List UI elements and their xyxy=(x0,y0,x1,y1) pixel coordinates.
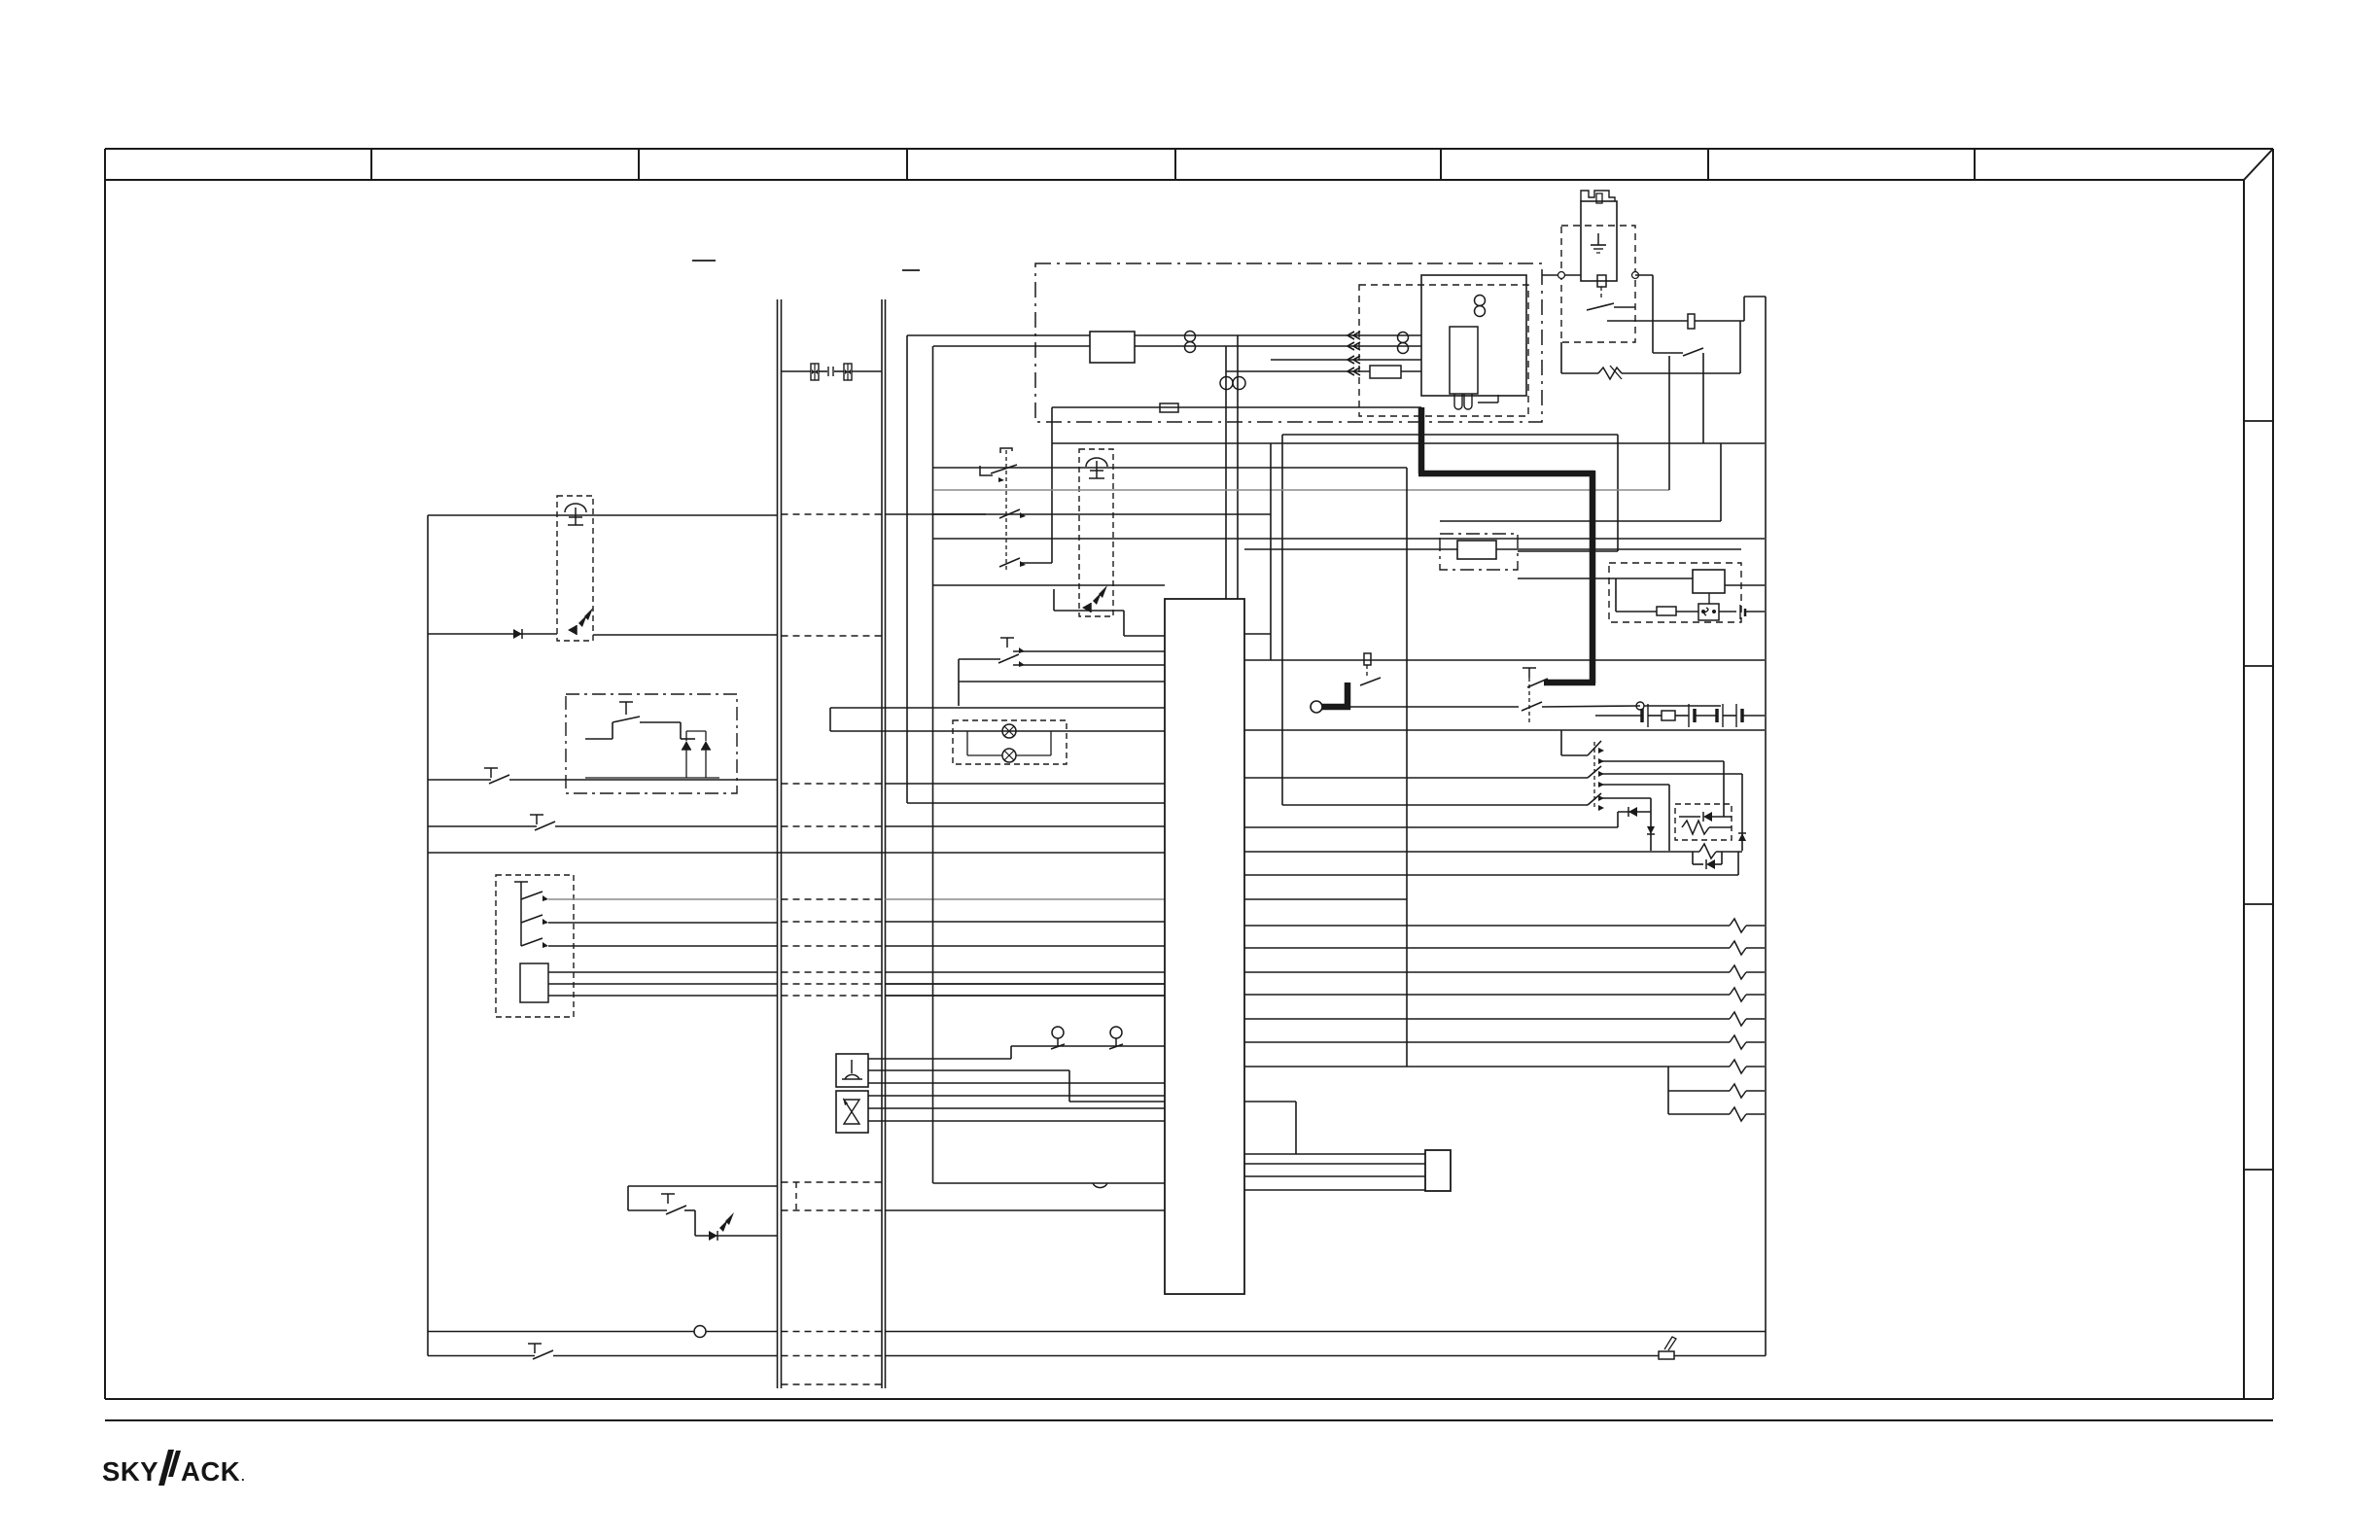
svg-text:.: . xyxy=(241,1469,245,1484)
svg-text:SKY: SKY xyxy=(102,1456,158,1487)
svg-text:ACK: ACK xyxy=(181,1456,240,1487)
